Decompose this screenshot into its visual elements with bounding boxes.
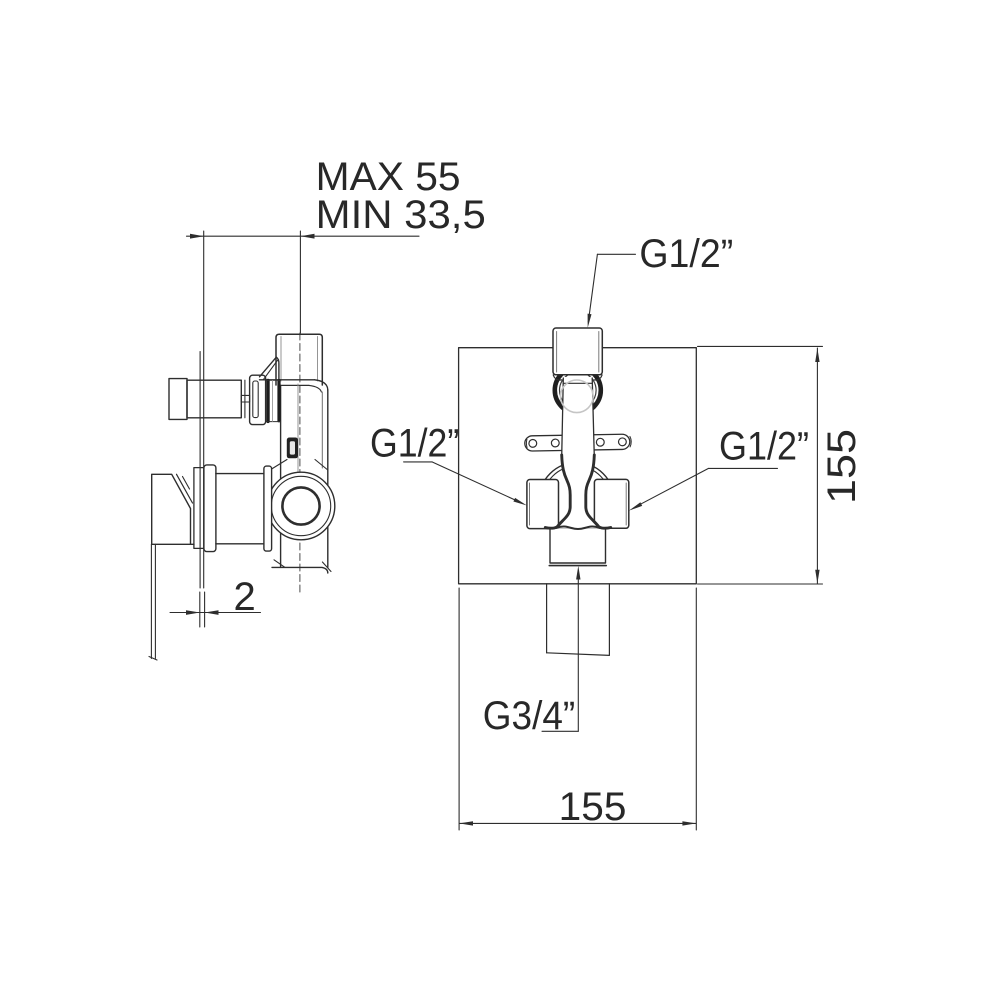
svg-text:MIN 33,5: MIN 33,5 — [316, 193, 486, 237]
svg-text:G3/4”: G3/4” — [483, 694, 575, 738]
svg-text:155: 155 — [559, 785, 627, 829]
svg-text:G1/2”: G1/2” — [370, 422, 459, 466]
svg-text:G1/2”: G1/2” — [639, 232, 733, 276]
svg-text:2: 2 — [234, 575, 256, 619]
svg-text:G1/2”: G1/2” — [719, 425, 809, 469]
svg-text:155: 155 — [820, 429, 864, 504]
